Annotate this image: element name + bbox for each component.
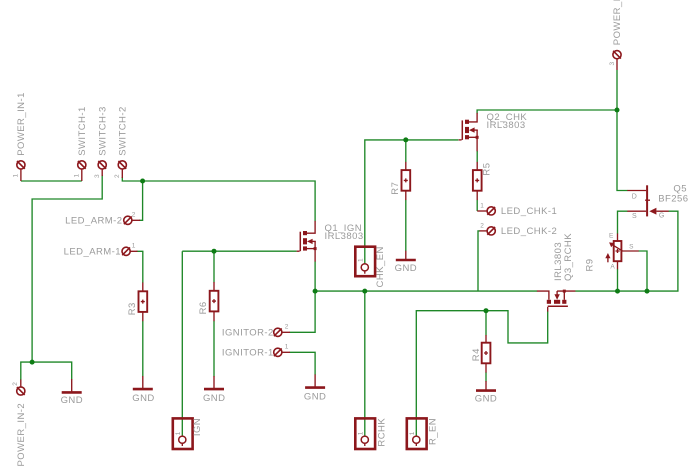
svg-text:1: 1 — [358, 431, 365, 435]
svg-text:IGN: IGN — [192, 418, 203, 436]
wire IGNITOR-1 to GND — [290, 352, 316, 375]
node junction gate net at R6 — [212, 249, 217, 254]
resistor R5 — [473, 162, 482, 200]
svg-text:2: 2 — [114, 174, 121, 178]
wire POWER_IN-3 stub down — [616, 70, 618, 110]
svg-text:Q3_RCHK: Q3_RCHK — [563, 233, 574, 281]
resistor R6 — [210, 282, 219, 321]
wire gate net horizontal to Q1 gate — [182, 250, 296, 252]
svg-text:1: 1 — [285, 343, 289, 350]
wire junction down to R4 — [485, 311, 487, 336]
svg-text:R9: R9 — [585, 258, 596, 271]
wire R5 to LED_CHK-1 corner — [476, 200, 478, 211]
node junction lower-left POWER_IN-2 — [30, 360, 35, 365]
terminal POWER_IN-2 pin 2 — [17, 380, 25, 396]
wire node junction to POWER_IN-2 — [21, 362, 32, 380]
svg-text:POWER_IN-1: POWER_IN-1 — [16, 92, 27, 156]
svg-text:A: A — [610, 264, 615, 271]
svg-text:R4: R4 — [471, 348, 482, 361]
wire R9 wiper down to right bus — [639, 251, 648, 291]
wire R_EN pad up to gate staircase — [416, 311, 486, 436]
wire R6 to GND — [213, 321, 215, 377]
wire LED_CHK-2 down to bus — [478, 231, 480, 291]
svg-text:IGNITOR-1: IGNITOR-1 — [222, 347, 274, 358]
svg-text:R5: R5 — [481, 163, 492, 176]
resistor R7 — [402, 162, 411, 200]
svg-text:1: 1 — [132, 242, 136, 249]
wire SWITCH-3 down-left to lower-left rail — [32, 175, 102, 362]
svg-text:GND: GND — [203, 393, 225, 404]
wire R4 to GND — [485, 372, 487, 381]
wire LED_ARM-1 to R3 — [137, 251, 143, 283]
node junction right bus at R9 bottom — [615, 289, 620, 294]
pad CHK_EN pin 1 — [355, 247, 375, 277]
svg-text:3: 3 — [609, 62, 616, 66]
svg-text:1: 1 — [13, 174, 20, 178]
transistor Q2 (IRL3803 n-mosfet) — [459, 113, 479, 151]
svg-text:1: 1 — [358, 258, 365, 262]
wire SWITCH-2 to top horizontal net — [122, 177, 315, 221]
svg-text:R7: R7 — [390, 182, 401, 195]
wire junction down to LED_ARM-2 — [139, 181, 143, 220]
terminal LED_ARM-1 pin 1 — [122, 247, 138, 255]
svg-text:G: G — [659, 213, 664, 220]
ground GND under R3 — [133, 376, 153, 389]
wire Q2 source to R5 — [476, 151, 478, 162]
svg-text:2: 2 — [132, 211, 136, 218]
wire junction to GND lower-left — [32, 362, 72, 379]
wire net POWER_IN-1 to SWITCH-1 — [21, 180, 82, 182]
wire main bus — [315, 290, 537, 292]
svg-text:2: 2 — [285, 323, 289, 330]
svg-text:1: 1 — [73, 174, 80, 178]
wire junction down to R7 — [405, 140, 407, 162]
svg-text:GND: GND — [395, 263, 417, 274]
svg-text:GND: GND — [132, 393, 154, 404]
svg-text:1: 1 — [480, 202, 484, 209]
svg-text:LED_ARM-2: LED_ARM-2 — [65, 216, 122, 227]
svg-text:GND: GND — [304, 392, 326, 403]
ground GND under R7 — [396, 251, 416, 260]
svg-text:2: 2 — [12, 382, 19, 386]
svg-text:IGNITOR-2: IGNITOR-2 — [222, 327, 274, 338]
svg-text:R3: R3 — [127, 302, 138, 315]
node junction R_EN net at R4 — [484, 308, 489, 313]
ground GND under IGNITOR-1 — [305, 374, 325, 387]
svg-text:SWITCH-1: SWITCH-1 — [77, 106, 88, 156]
wire IGN pad up to gate net — [181, 251, 183, 436]
svg-text:LED_ARM-1: LED_ARM-1 — [64, 246, 121, 257]
terminal POWER_IN-1 pin 1 — [17, 161, 25, 181]
terminal LED_CHK-1 pin 1 — [477, 207, 495, 215]
svg-text:1: 1 — [175, 431, 182, 435]
node junction Q2 gate net at R7 — [403, 137, 408, 142]
wire Q5 gate down and left along right bus — [575, 211, 678, 291]
terminal IGNITOR-1 pin 1 — [274, 348, 290, 356]
wire staircase junction to Q3 gate — [486, 311, 548, 343]
svg-text:BF256: BF256 — [658, 194, 688, 205]
svg-text:IRL3803: IRL3803 — [487, 120, 526, 131]
wire Q2 drain up to power rail — [477, 110, 617, 114]
svg-text:RCHK: RCHK — [376, 418, 387, 447]
svg-text:LED_CHK-2: LED_CHK-2 — [501, 226, 557, 237]
svg-text:R_EN: R_EN — [427, 418, 438, 445]
terminal POWER_IN-3 pin 3 — [613, 51, 621, 70]
wire Q1 source down to bus and IGNITOR-2 — [290, 261, 316, 332]
pad IGN pin 1 — [173, 418, 193, 449]
svg-text:R6: R6 — [198, 301, 209, 314]
node junction bus at RCHK — [362, 289, 367, 294]
terminal IGNITOR-2 pin 2 — [274, 328, 290, 336]
node junction SWITCH-2 net — [140, 179, 145, 184]
wire power rail down to Q5 drain — [617, 110, 628, 191]
ground GND under R4 — [476, 381, 496, 391]
svg-text:CHK_EN: CHK_EN — [375, 246, 386, 287]
pad RCHK pin 1 — [355, 418, 375, 449]
svg-text:SWITCH-2: SWITCH-2 — [118, 106, 129, 156]
terminal SWITCH-1 pin 1 — [78, 161, 86, 181]
ground GND lower-left — [62, 379, 82, 392]
pad R_EN pin 1 — [407, 418, 427, 449]
wire R3 to GND — [142, 321, 144, 377]
wire R9 bottom to right bus — [617, 269, 619, 291]
wire Q5 source down to R9 — [618, 211, 628, 234]
transistor Q5 (BF256 n-jfet) — [627, 185, 668, 216]
terminal LED_ARM-2 pin 2 — [124, 216, 140, 224]
node junction bus at Q1 source — [313, 289, 318, 294]
transistor Q1 (IRL3803 n-mosfet) — [297, 221, 317, 262]
svg-text:GND: GND — [61, 395, 83, 406]
svg-text:2: 2 — [480, 222, 484, 229]
svg-text:E: E — [609, 233, 614, 240]
wire R7 to GND — [405, 200, 407, 251]
svg-text:D: D — [632, 193, 637, 200]
terminal SWITCH-2 pin 2 — [118, 161, 126, 178]
wire CHK_EN pad up to Q2 gate net — [365, 140, 459, 264]
resistor R3 — [139, 283, 148, 322]
svg-text:IRL3803: IRL3803 — [325, 231, 364, 242]
terminal LED_CHK-2 pin 2 — [480, 227, 496, 235]
node junction right bus at R9 wiper — [645, 289, 650, 294]
svg-text:GND: GND — [475, 394, 497, 405]
svg-text:LED_CHK-1: LED_CHK-1 — [501, 206, 557, 217]
transistor Q3 (IRL3803 n-mosfet, rotated) — [537, 290, 576, 312]
svg-text:1: 1 — [409, 431, 416, 435]
svg-text:S: S — [632, 213, 637, 220]
resistor R4 — [482, 335, 491, 373]
trimmer R9 — [605, 234, 638, 270]
svg-text:SWITCH-3: SWITCH-3 — [97, 106, 108, 156]
svg-text:POWER_IN-3: POWER_IN-3 — [612, 0, 623, 45]
ground GND under R6 — [204, 376, 224, 389]
svg-text:POWER_IN-2: POWER_IN-2 — [16, 403, 27, 467]
terminal SWITCH-3 pin 3 — [98, 161, 106, 176]
svg-text:3: 3 — [94, 174, 101, 178]
wire junction down to R6 — [213, 251, 215, 282]
wire bus junction down to RCHK pad — [364, 291, 366, 436]
node junction power rail at POWER_IN-3 — [615, 108, 620, 113]
svg-text:S: S — [629, 244, 634, 251]
